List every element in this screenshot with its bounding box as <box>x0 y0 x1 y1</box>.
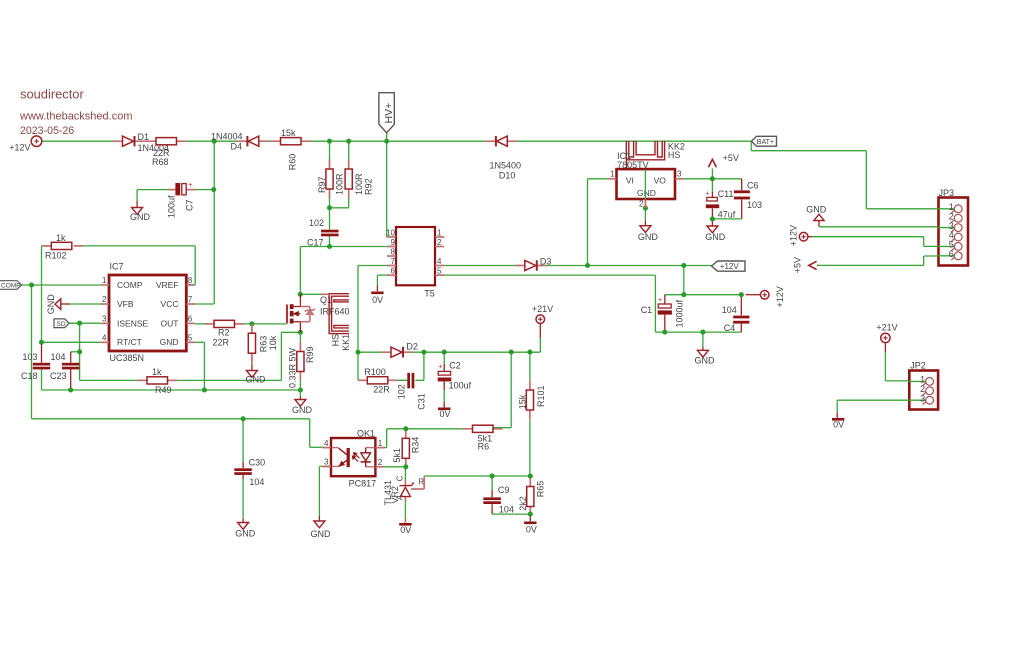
wire OK1 pin4 riser <box>310 419 323 448</box>
wire +12V circle stub <box>746 294 761 296</box>
wire JP3 +5V <box>817 256 955 265</box>
wire out to C6 <box>712 178 741 180</box>
0V T5 <box>371 292 383 305</box>
title soudirector <box>20 87 84 102</box>
capacitor C6 103 <box>734 181 762 211</box>
svg-text:GND: GND <box>292 405 313 415</box>
resistor R49 1k <box>138 367 178 395</box>
transformer T5 <box>386 227 444 298</box>
svg-text:VR2: VR2 <box>390 486 400 504</box>
capacitor C18 103 <box>21 352 50 381</box>
svg-text:soudirector: soudirector <box>20 87 84 102</box>
svg-text:SD: SD <box>57 321 66 328</box>
svg-text:C18: C18 <box>21 371 38 381</box>
svg-text:100R: 100R <box>335 173 345 195</box>
regulator IC1 7805TV <box>607 151 684 208</box>
svg-text:3: 3 <box>324 458 329 467</box>
wire R102 left riser <box>41 246 43 342</box>
svg-text:GND: GND <box>130 212 151 222</box>
svg-text:1N4004: 1N4004 <box>211 131 243 141</box>
resistor R102 1k <box>42 233 83 261</box>
wire +5V stem <box>711 169 713 179</box>
svg-text:2: 2 <box>102 295 107 304</box>
svg-text:VO: VO <box>654 176 667 186</box>
svg-text:C17: C17 <box>307 237 324 247</box>
wire C18 top stem <box>41 342 43 362</box>
svg-text:5k1: 5k1 <box>392 448 402 463</box>
svg-text:R6: R6 <box>478 442 490 452</box>
supply +12V right <box>760 286 785 307</box>
diode D10 1N5400 <box>486 136 522 180</box>
wire gate net <box>240 323 287 325</box>
wire D3 out row <box>542 265 712 267</box>
wire R34 row <box>387 428 466 430</box>
wire R34 top stub <box>405 429 407 439</box>
ground C7 <box>130 208 151 223</box>
wire +21V stem mid <box>539 324 541 353</box>
wire isense riser <box>280 332 282 380</box>
svg-text:3: 3 <box>920 393 925 403</box>
svg-text:103: 103 <box>23 352 38 362</box>
svg-text:2: 2 <box>378 458 383 467</box>
svg-text:C4: C4 <box>724 323 736 333</box>
svg-text:102: 102 <box>309 218 324 228</box>
wire C9 top stem <box>491 476 493 497</box>
supply +5V arrow <box>708 153 738 167</box>
ground C11 <box>705 226 726 242</box>
wire C4 bottom stem <box>740 324 742 333</box>
capacitor C2 100uf <box>438 360 472 390</box>
wire C6 bottom stem <box>741 200 743 219</box>
resistor R99 0.33R 5W <box>287 332 315 390</box>
svg-text:www.thebackshed.com: www.thebackshed.com <box>19 111 133 123</box>
svg-text:15k: 15k <box>281 128 296 138</box>
capacitor C30 104 <box>234 458 265 488</box>
wire R92 bottom <box>330 189 349 208</box>
svg-text:HS: HS <box>668 150 681 160</box>
svg-text:R97: R97 <box>317 176 327 193</box>
capacitor C23 104 <box>50 352 79 381</box>
svg-text:C7: C7 <box>184 199 194 211</box>
wire C7 right <box>193 189 214 191</box>
wire junction dots <box>29 139 744 517</box>
svg-text:0V: 0V <box>439 409 450 419</box>
flag +12V <box>712 261 745 271</box>
svg-text:OUT: OUT <box>161 318 179 328</box>
supply +21V JP2 <box>876 322 897 342</box>
svg-text:JP2: JP2 <box>910 361 926 371</box>
resistor R2 22R <box>205 320 245 347</box>
svg-text:R101: R101 <box>536 385 546 407</box>
svg-text:T5: T5 <box>424 288 435 298</box>
wire C1 bottom stem <box>664 315 666 332</box>
resistor R92 100R <box>345 159 373 198</box>
ground R99 <box>292 400 313 415</box>
resistor R100 22R <box>358 367 397 394</box>
flag HV+ <box>379 93 395 133</box>
wire R65 top stub <box>529 476 531 487</box>
wire R92 riser <box>348 141 350 169</box>
wire R101 top <box>529 352 531 390</box>
svg-text:0.33R 5W: 0.33R 5W <box>287 347 297 388</box>
wire R34 bottom <box>405 458 407 467</box>
wire VCC riser x214 <box>190 141 214 304</box>
wire C23 top <box>71 352 80 363</box>
svg-text:Q1: Q1 <box>320 295 332 305</box>
wire C11 gnd stem <box>711 219 713 226</box>
svg-text:1: 1 <box>437 228 442 237</box>
wire HV+ to T5 pin10 <box>386 141 389 237</box>
supply +12V JP3 <box>789 225 808 246</box>
svg-text:5: 5 <box>437 266 442 275</box>
wire C7 left <box>137 189 168 191</box>
svg-text:104: 104 <box>249 477 264 487</box>
resistor R101 15k <box>517 385 546 410</box>
svg-text:+5V: +5V <box>793 257 803 273</box>
svg-text:+: + <box>658 297 662 304</box>
svg-text:1: 1 <box>102 276 107 285</box>
wire C9 bottom stem <box>492 504 530 514</box>
wire R6 riser <box>494 352 512 428</box>
svg-text:R: R <box>418 478 424 487</box>
svg-text:GND: GND <box>46 294 56 315</box>
svg-text:100R: 100R <box>354 173 364 195</box>
svg-text:R49: R49 <box>155 385 172 395</box>
wire JP3 +12V <box>808 237 955 247</box>
svg-text:0V: 0V <box>526 525 537 535</box>
svg-text:GND: GND <box>695 356 716 366</box>
svg-text:R68: R68 <box>152 157 169 167</box>
svg-text:0V: 0V <box>400 525 411 535</box>
wire +21V to JP2 <box>885 343 926 381</box>
resistor R97 100R <box>317 159 345 198</box>
svg-text:OK1: OK1 <box>357 428 375 438</box>
svg-text:0V: 0V <box>833 420 844 430</box>
svg-text:GND: GND <box>638 232 659 242</box>
resistor R63 10k <box>248 324 278 363</box>
wire OUT to R2 <box>195 323 208 325</box>
ground R63 <box>246 371 267 385</box>
wire gnd rail 390 <box>42 389 301 391</box>
wire IC1 out <box>675 178 712 180</box>
svg-text:7: 7 <box>188 295 193 304</box>
svg-text:104: 104 <box>499 504 514 514</box>
svg-text:VFB: VFB <box>117 299 134 309</box>
wire C1 gnd stem <box>702 332 704 350</box>
wire main +12V input rail <box>42 140 752 142</box>
wire C23 bottom stem <box>70 369 72 390</box>
capacitor C4 104 <box>722 305 750 333</box>
svg-text:104: 104 <box>51 352 66 362</box>
svg-text:+12V: +12V <box>9 143 30 153</box>
svg-text:BAT+: BAT+ <box>757 139 774 146</box>
wire bottom rail 418 <box>32 418 310 420</box>
wire C6 C11 gnd row <box>712 218 741 220</box>
wire R63 top <box>251 324 253 333</box>
resistor R6 5k1 <box>463 425 503 451</box>
wire C6 top stem <box>741 179 743 190</box>
svg-text:C2: C2 <box>449 360 461 370</box>
svg-text:2: 2 <box>639 200 644 209</box>
ground VFB <box>46 294 101 315</box>
wire T5 pin6 0V <box>377 275 387 291</box>
wire gnd rail C1 <box>655 331 741 333</box>
svg-text:102: 102 <box>397 384 407 399</box>
svg-text:R2: R2 <box>218 327 230 337</box>
wire C2 top stem <box>443 352 445 371</box>
optocoupler OK1 PC817 <box>322 428 384 488</box>
svg-text:D3: D3 <box>540 256 552 266</box>
svg-text:4: 4 <box>324 439 329 448</box>
supply +5V JP3 <box>793 257 817 273</box>
svg-text:1000uf: 1000uf <box>675 299 685 327</box>
svg-text:D4: D4 <box>231 141 243 151</box>
svg-text:6: 6 <box>391 266 396 275</box>
svg-text:2k2: 2k2 <box>518 496 528 511</box>
wire OK1 pin3 gnd <box>319 466 331 520</box>
svg-text:R100: R100 <box>364 367 386 377</box>
svg-text:C1: C1 <box>641 305 653 315</box>
svg-text:COMP: COMP <box>117 280 143 290</box>
svg-text:C30: C30 <box>249 458 266 468</box>
svg-text:GND: GND <box>705 232 726 242</box>
resistor R34 5k1 <box>392 437 421 463</box>
diode D4 1N4004 <box>211 131 268 151</box>
svg-text:1N5400: 1N5400 <box>490 160 522 170</box>
wire R97 bottom <box>329 189 331 208</box>
capacitor C9 104 <box>483 485 514 514</box>
svg-text:VCC: VCC <box>161 299 179 309</box>
svg-text:IRF640: IRF640 <box>320 306 350 316</box>
svg-text:4: 4 <box>437 257 442 266</box>
svg-text:0V: 0V <box>372 295 383 305</box>
svg-text:100uf: 100uf <box>167 195 177 218</box>
wire ref row <box>424 475 530 477</box>
svg-text:D2: D2 <box>406 342 418 352</box>
svg-text:R102: R102 <box>45 251 67 261</box>
wire COMP down <box>31 285 33 419</box>
svg-text:1: 1 <box>610 170 615 179</box>
capacitor C31 102 <box>397 373 427 410</box>
svg-text:10k: 10k <box>268 335 278 350</box>
resistor R65 2k2 <box>518 481 545 511</box>
wire COMP to pin1 <box>22 284 101 286</box>
ground IC1 <box>638 226 659 242</box>
title date <box>20 125 74 137</box>
wire isense row R49 <box>80 379 282 381</box>
svg-text:1k: 1k <box>152 367 162 377</box>
connector JP3 <box>938 188 969 266</box>
supply +21V mid <box>532 304 553 324</box>
wire TL431 ref <box>411 477 424 490</box>
wire T5 pin4 to D3 <box>444 265 519 267</box>
capacitor C7 100uf <box>167 182 196 218</box>
wire pin5 down <box>654 275 656 332</box>
wire C7 gnd stem <box>136 190 138 208</box>
svg-text:UC385N: UC385N <box>110 353 145 363</box>
wire TL431 cathode <box>404 467 406 485</box>
wire +12V row C1 <box>665 294 742 296</box>
wire C11 top stem <box>711 179 713 197</box>
svg-text:C11: C11 <box>718 189 734 199</box>
wire C17 top stem <box>329 208 331 230</box>
svg-text:HV+: HV+ <box>383 103 395 124</box>
wire R100 to C31 <box>388 379 407 381</box>
wire R97 riser <box>329 141 331 169</box>
svg-text:+12V: +12V <box>720 262 740 271</box>
resistor R60 15k <box>271 128 311 170</box>
svg-text:C: C <box>395 475 404 481</box>
heatsink KK1 <box>321 294 351 351</box>
wire OK1 pin2 row <box>376 466 406 468</box>
wire source node left <box>281 331 300 333</box>
svg-text:8: 8 <box>188 276 193 285</box>
svg-text:7: 7 <box>391 257 396 266</box>
0V JP2 <box>832 418 844 430</box>
svg-text:GND: GND <box>311 529 332 539</box>
flag BAT+ <box>751 136 776 146</box>
svg-text:+21V: +21V <box>876 322 897 332</box>
ground C1 C4 <box>695 350 716 365</box>
wire C2 bottom stem <box>443 381 445 407</box>
wire IC1 gnd below box <box>644 199 646 226</box>
0V TL431 <box>399 523 411 535</box>
0V C2 <box>438 408 451 420</box>
svg-text:6: 6 <box>188 314 193 323</box>
svg-text:R92: R92 <box>364 178 374 195</box>
wire C17 to T5 pin9 <box>300 246 387 248</box>
wire pin5 gnd <box>195 342 205 390</box>
title url <box>19 111 133 123</box>
wire C31 right <box>415 352 424 380</box>
svg-text:KK1: KK1 <box>341 334 351 351</box>
svg-text:VI: VI <box>626 176 634 186</box>
svg-text:VREF: VREF <box>156 280 179 290</box>
diode D3 <box>515 256 551 270</box>
svg-text:R34: R34 <box>411 437 421 454</box>
resistor R68 22R <box>152 138 186 168</box>
svg-text:C23: C23 <box>50 371 67 381</box>
wire JP2 pin3 to 0V <box>837 400 926 418</box>
wire T5 pin5 row <box>444 274 655 276</box>
wire KK2 pin <box>626 160 628 169</box>
ground JP3 <box>806 205 827 221</box>
heatsink KK2 <box>626 141 685 160</box>
wire D2 row <box>358 351 540 353</box>
wire C1 top stem <box>664 295 666 304</box>
svg-text:ISENSE: ISENSE <box>117 318 149 328</box>
svg-text:C9: C9 <box>498 485 510 495</box>
svg-text:3: 3 <box>677 170 682 179</box>
wire C17 net down <box>299 247 301 295</box>
flag COMP <box>0 281 22 290</box>
wire vref row <box>42 245 196 247</box>
wire C4 top stem <box>740 295 742 316</box>
wire +12V flag riser <box>683 266 685 295</box>
wire C11 bottom stem <box>711 208 713 219</box>
svg-text:4: 4 <box>102 333 107 342</box>
ic U1 UC385N IC7 <box>101 262 195 364</box>
svg-text:22R: 22R <box>373 385 390 395</box>
ground C30 <box>235 523 256 539</box>
svg-text:3: 3 <box>102 314 107 323</box>
svg-text:D1: D1 <box>138 132 150 142</box>
wire drain node to KK1 <box>300 293 321 295</box>
svg-text:1k: 1k <box>56 233 66 243</box>
svg-text:2023-05-26: 2023-05-26 <box>20 125 74 137</box>
diode D1 1N4004 <box>113 132 169 153</box>
svg-text:+21V: +21V <box>532 304 553 314</box>
wire C30 stem <box>242 419 244 523</box>
svg-text:9: 9 <box>391 238 396 247</box>
wire BAT+ drop <box>751 141 954 209</box>
svg-text:GND: GND <box>637 188 656 198</box>
svg-text:R65: R65 <box>536 481 546 498</box>
svg-text:10: 10 <box>386 228 395 237</box>
wire KK2 gnd through IC1 <box>644 170 646 200</box>
svg-text:GND: GND <box>160 337 179 347</box>
wire R63 bottom <box>251 353 253 370</box>
0V R65 <box>524 522 537 535</box>
wire JP3 gnd <box>819 221 955 227</box>
svg-text:GND: GND <box>806 205 827 215</box>
svg-text:IC7: IC7 <box>110 262 124 272</box>
capacitor C1 1000uf <box>641 297 685 327</box>
wire R100 branch down <box>358 352 367 380</box>
wire R101 bottom <box>529 410 531 476</box>
supply +12V input <box>9 136 42 153</box>
ground OK1 <box>311 521 332 539</box>
svg-text:15k: 15k <box>517 394 527 409</box>
wire SD net down <box>79 323 81 380</box>
connector JP2 <box>908 361 938 410</box>
svg-text:COMP: COMP <box>1 283 21 290</box>
svg-text:+: + <box>188 182 192 189</box>
wire SD to pin3 <box>69 322 101 324</box>
svg-text:GND: GND <box>235 528 256 538</box>
svg-text:+12V: +12V <box>789 225 799 246</box>
wire pin4 row <box>42 341 101 343</box>
wire C18 bottom stem <box>41 369 43 390</box>
svg-text:C31: C31 <box>416 393 426 410</box>
wire TL431 anode <box>404 497 406 523</box>
wire T5 pin7 riser <box>358 266 387 353</box>
svg-text:+5V: +5V <box>723 153 739 163</box>
diode D2 <box>382 342 418 358</box>
svg-text:104: 104 <box>722 305 737 315</box>
wire HV+ stem <box>386 133 388 141</box>
svg-text:22R: 22R <box>213 337 230 347</box>
capacitor C17 102 <box>307 218 339 247</box>
wire IC1 feed riser <box>588 179 609 266</box>
shunt regulator VR2 TL431 <box>383 475 425 505</box>
svg-text:D10: D10 <box>499 170 516 180</box>
svg-text:RT/CT: RT/CT <box>117 337 142 347</box>
svg-text:+: + <box>438 363 442 370</box>
svg-text:100uf: 100uf <box>449 381 472 391</box>
wire R99 gnd stem <box>299 390 301 399</box>
svg-text:+: + <box>705 190 709 197</box>
svg-text:6: 6 <box>949 249 954 259</box>
svg-text:8: 8 <box>391 247 396 256</box>
svg-text:1: 1 <box>378 439 383 448</box>
svg-text:R60: R60 <box>288 154 298 171</box>
svg-text:PC817: PC817 <box>349 478 377 488</box>
svg-text:103: 103 <box>747 200 762 210</box>
svg-text:47uf: 47uf <box>718 210 736 220</box>
svg-text:C6: C6 <box>747 181 759 191</box>
wire C17 bottom stem <box>329 236 331 247</box>
